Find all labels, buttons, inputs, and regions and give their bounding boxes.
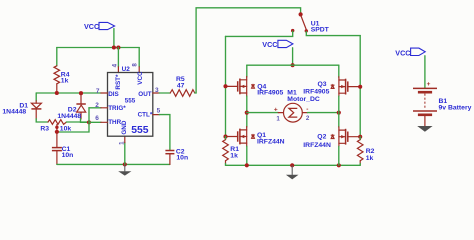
wire Q3 drain to Q2 drain [338, 96, 340, 127]
wire THR node to C1 [58, 122, 90, 132]
pin 4 stub [117, 67, 119, 73]
wire VCC riser to bridge rail [292, 48, 294, 65]
diode D2 [57, 95, 85, 120]
svg-text:1: 1 [118, 141, 125, 145]
wire Q1 source to ground rail [246, 146, 248, 165]
wire pin 3 to R5 [159, 92, 170, 94]
battery B1 [413, 81, 472, 126]
resistor R2 [357, 137, 374, 166]
wire D2 bottom bend [81, 119, 90, 123]
capacitor C2 [165, 149, 188, 165]
supply VCC flag (H-bridge) [262, 40, 293, 49]
wire D1 top bend [35, 93, 37, 101]
svg-text:Q3: Q3 [318, 81, 327, 88]
transistor Q3 [303, 77, 359, 97]
svg-text:Q2: Q2 [317, 133, 326, 140]
wire pin 2 [89, 107, 101, 109]
wire right throw to right gate rail [306, 32, 360, 36]
wire left gate rail [225, 36, 227, 136]
svg-text:VCC: VCC [262, 40, 277, 49]
svg-text:IRFZ44N: IRFZ44N [257, 138, 285, 145]
svg-text:TRIG*: TRIG* [108, 105, 126, 112]
svg-text:9v Battery: 9v Battery [439, 105, 472, 112]
svg-text:555: 555 [125, 97, 136, 104]
wire pin 5 to C2 [159, 115, 170, 151]
wire left throw to left gate rail [226, 31, 293, 36]
ground symbol (battery) [417, 126, 432, 132]
junction VCC/top rail [112, 45, 116, 49]
ground symbol (555) [118, 164, 131, 175]
svg-text:OUT: OUT [138, 91, 151, 98]
svg-text:VCC: VCC [395, 48, 410, 57]
diode D1 [2, 101, 41, 120]
svg-text:6: 6 [95, 115, 99, 122]
supply VCC flag (over 555) [84, 22, 115, 31]
svg-text:R3: R3 [40, 125, 49, 132]
wire right gate rail [359, 36, 361, 137]
wire left ground rail [57, 163, 170, 165]
svg-text:IRF4905: IRF4905 [257, 90, 283, 97]
svg-text:GND: GND [121, 120, 128, 134]
svg-text:3: 3 [155, 87, 159, 94]
junction motor left node [245, 111, 249, 115]
transistor Q4 [227, 77, 284, 97]
transistor Q1 [227, 127, 285, 147]
pin 8 stub [138, 67, 140, 73]
resistor R5 [170, 76, 195, 96]
svg-text:R2: R2 [366, 148, 375, 155]
svg-text:VCC: VCC [84, 22, 99, 31]
wire pin 8 riser [138, 48, 140, 67]
svg-text:+: + [274, 107, 278, 114]
svg-text:4: 4 [112, 63, 119, 67]
wire R5 riser to switch common [195, 8, 301, 93]
capacitor C1 [52, 125, 73, 165]
svg-text:1k: 1k [366, 155, 374, 162]
resistor R1 [223, 137, 240, 166]
pin 7 stub [101, 92, 108, 94]
wire top rail [57, 47, 139, 49]
wire pin 1 [124, 143, 126, 165]
svg-text:1: 1 [276, 115, 280, 122]
svg-text:2: 2 [95, 102, 99, 109]
svg-text:1N4448: 1N4448 [2, 109, 26, 116]
svg-text:THR: THR [108, 119, 121, 126]
resistor R4 [54, 48, 70, 94]
svg-text:7: 7 [96, 88, 100, 95]
svg-text:2: 2 [306, 115, 310, 122]
switch U1 SPDT [291, 12, 330, 33]
svg-text:Motor_DC: Motor_DC [287, 96, 320, 103]
svg-text:1N4448: 1N4448 [57, 113, 81, 120]
ground symbol (H-bridge) [286, 165, 299, 179]
pin 5 stub [153, 114, 160, 116]
pin 1 stub [124, 136, 126, 142]
svg-text:VCC: VCC [137, 71, 144, 85]
svg-text:RST*: RST* [115, 74, 122, 90]
wire VCC to top rail [113, 29, 115, 48]
junction pin1/ground rail [123, 162, 127, 166]
IC U2 555 box [108, 66, 153, 136]
svg-text:+: + [427, 81, 431, 88]
svg-text:SPDT: SPDT [311, 26, 330, 33]
wire Q3 source riser [338, 65, 340, 77]
junction Q1 gate [223, 135, 227, 139]
resistor R3 [40, 120, 89, 133]
wire D1 to R3 [36, 119, 48, 122]
junction pin4/top rail [116, 45, 120, 49]
supply VCC flag (battery) [395, 48, 425, 57]
junction TRIG/THR node [87, 120, 91, 124]
wire Q2 source to ground rail [338, 146, 340, 165]
transistor Q2 [303, 127, 359, 149]
wire Q4 drain to Q1 drain [246, 96, 248, 127]
junction Q2 gate [358, 135, 362, 139]
junction Q4 gate [223, 84, 227, 88]
svg-text:DIS: DIS [108, 91, 119, 98]
pin 2 stub [101, 107, 108, 109]
junction D2/DIS [79, 91, 83, 95]
wire TRIG to THR tie [88, 108, 90, 123]
wire Q4 source riser [246, 65, 248, 77]
svg-text:1k: 1k [61, 77, 69, 84]
wire pin 4 riser [117, 48, 119, 67]
wire H-bridge top rail [247, 64, 339, 66]
junction Q2 source/rail [337, 163, 341, 167]
svg-text:U2: U2 [122, 66, 131, 73]
svg-text:10n: 10n [62, 152, 74, 159]
junction Q1 source/rail [245, 163, 249, 167]
svg-text:8: 8 [131, 63, 138, 67]
svg-text:10n: 10n [176, 155, 188, 162]
pin 3 stub [153, 92, 160, 94]
svg-text:1k: 1k [230, 152, 238, 159]
svg-text:IRF4905: IRF4905 [303, 88, 329, 95]
wire pin 6 [89, 121, 101, 123]
wire DIS net (pin 7 row) [36, 92, 101, 94]
svg-text:IRFZ44N: IRFZ44N [303, 142, 331, 149]
junction Q3 gate [358, 85, 362, 89]
svg-text:CTL*: CTL* [138, 112, 153, 119]
svg-text:555: 555 [131, 125, 149, 136]
svg-text:-: - [306, 106, 308, 113]
wire right ground rail [226, 164, 361, 166]
junction R4/DIS [55, 91, 59, 95]
junction VCC/bridge rail [291, 63, 295, 67]
wire VCC to battery [424, 56, 426, 88]
svg-text:5: 5 [157, 107, 161, 114]
junction motor right node [337, 111, 341, 115]
motor M1 [247, 90, 339, 123]
junction ground symbol/rail [290, 163, 294, 167]
pin 6 stub [101, 121, 108, 123]
svg-text:47: 47 [177, 82, 185, 89]
